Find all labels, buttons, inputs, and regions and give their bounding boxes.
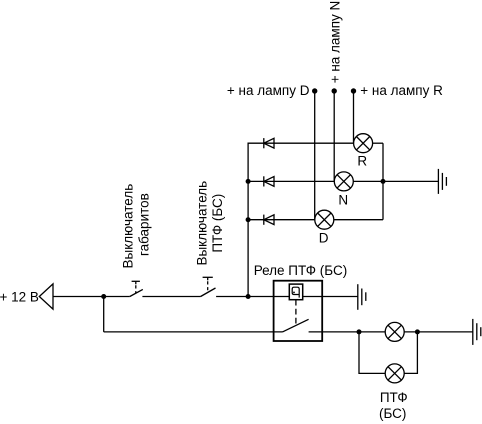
svg-text:Реле ПТФ (БС): Реле ПТФ (БС) bbox=[254, 263, 348, 278]
svg-text:+ на лампу R: + на лампу R bbox=[360, 83, 443, 98]
node terminal D dot bbox=[312, 88, 317, 93]
wire switch S2 to junction B bbox=[216, 296, 248, 298]
relay coil K1 bbox=[289, 284, 302, 300]
switch S2 actuator T and dashed link bbox=[203, 277, 213, 293]
wire lamp N to ground G1 bbox=[353, 180, 438, 182]
relay box bbox=[274, 281, 323, 341]
wire lower branch to lamp F2 bbox=[359, 332, 385, 374]
node bus dot N row bbox=[246, 179, 251, 184]
svg-text:Выключатель: Выключатель bbox=[121, 184, 136, 269]
wire junction A to switch S1 pivot bbox=[104, 296, 130, 298]
node terminal N dot bbox=[332, 88, 337, 93]
svg-text:N: N bbox=[338, 192, 348, 207]
svg-text:+ 12 В: + 12 В bbox=[0, 290, 39, 305]
lamp D bbox=[315, 210, 334, 229]
wire lamp F1 to ground G3 bbox=[404, 331, 473, 333]
lamp N bbox=[334, 172, 353, 191]
relay dashed actuator link bbox=[295, 300, 297, 324]
wire coil to ground G2 bbox=[303, 296, 358, 298]
svg-text:ПТФ (БС): ПТФ (БС) bbox=[210, 194, 225, 253]
switch S2 blade bbox=[201, 288, 216, 297]
svg-text:+ на лампу N: + на лампу N bbox=[327, 1, 342, 84]
lamp F1 (fog top) bbox=[385, 322, 404, 341]
node right bus dot bbox=[381, 179, 386, 184]
node +12V terminal triangle bbox=[39, 284, 53, 309]
wire lamp D to right bus bbox=[334, 219, 383, 221]
switch S1 actuator T and dashed link bbox=[132, 281, 140, 293]
wire vertical junction A down to bottom row bbox=[103, 297, 105, 332]
wire D row from bus to lamp D bbox=[248, 219, 315, 221]
wire lamp F2 back up to junction D bbox=[404, 332, 417, 374]
svg-text:Выключатель: Выключатель bbox=[194, 181, 209, 266]
diode VD1 bbox=[264, 138, 274, 148]
lamp F2 (fog bottom) bbox=[385, 364, 404, 383]
node terminal R dot bbox=[351, 88, 356, 93]
wire switch S1 to switch S2 bbox=[142, 296, 200, 298]
wire bottom row from junction A to relay contact bbox=[104, 331, 283, 333]
wire coil row from junction B to coil bbox=[248, 296, 289, 298]
wire diode bus vertical bbox=[248, 143, 353, 296]
node junction A dot bbox=[101, 294, 106, 299]
wire right bus vertical bbox=[382, 143, 384, 220]
node bus dot D row bbox=[246, 217, 251, 222]
svg-text:+ на лампу D: + на лампу D bbox=[227, 83, 310, 98]
ground G1 bbox=[438, 169, 446, 194]
ground G2 bbox=[358, 284, 366, 310]
wire from +12V to junction A bbox=[53, 296, 104, 298]
node junction B dot bbox=[246, 294, 251, 299]
node junction D dot bbox=[415, 329, 420, 334]
wire relay output to lamp F1 bbox=[309, 331, 386, 333]
wire feed N vertical bbox=[333, 91, 335, 181]
diode VD3 bbox=[264, 215, 274, 225]
svg-text:габаритов: габаритов bbox=[136, 193, 151, 256]
svg-text:ПТФ: ПТФ bbox=[380, 390, 408, 405]
wire N row from bus to lamp N bbox=[248, 180, 334, 182]
wire feed D vertical bbox=[314, 91, 316, 220]
ground G3 bbox=[473, 319, 481, 345]
diode VD2 bbox=[264, 176, 274, 186]
svg-text:R: R bbox=[357, 154, 367, 169]
switch S1 blade bbox=[130, 289, 143, 296]
relay contact blade bbox=[283, 319, 309, 332]
svg-text:D: D bbox=[319, 231, 329, 246]
lamp R bbox=[354, 134, 373, 153]
wire lamp R to right bus bbox=[373, 142, 383, 144]
svg-text:(БС): (БС) bbox=[379, 406, 406, 421]
wire feed R vertical bbox=[353, 91, 355, 143]
node junction C dot bbox=[357, 329, 362, 334]
